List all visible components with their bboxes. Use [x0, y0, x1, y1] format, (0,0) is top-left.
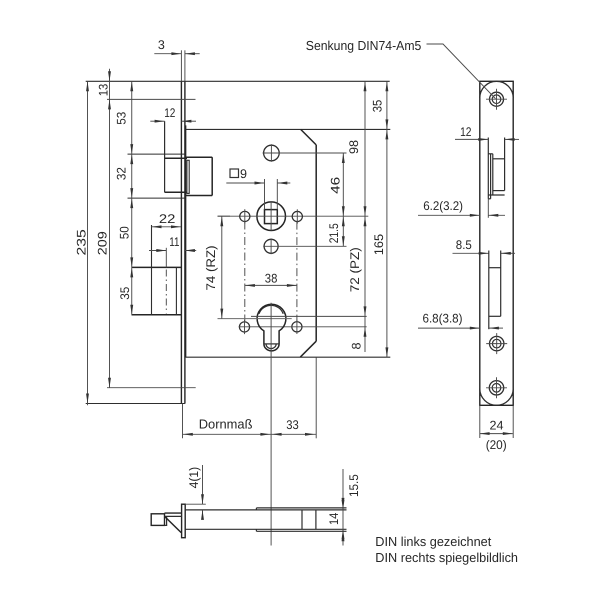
svg-text:Senkung DIN74-Am5: Senkung DIN74-Am5 [306, 38, 422, 53]
svg-text:38: 38 [265, 271, 278, 285]
svg-text:DIN rechts spiegelbildlich: DIN rechts spiegelbildlich [375, 550, 518, 565]
svg-text:4(1): 4(1) [187, 467, 201, 489]
svg-text:9: 9 [240, 167, 247, 181]
svg-text:21.5: 21.5 [327, 223, 341, 243]
dimension 35 / 165 (case height) [371, 81, 389, 357]
left dimension column 13 / 209 / 235 [75, 69, 111, 406]
svg-text:Dornmaß: Dornmaß [199, 417, 253, 432]
main vertical centerline [270, 303, 272, 546]
dash-dot hole pattern lines [244, 222, 246, 322]
latch in faceplate front view [488, 138, 504, 199]
dimension 3 (faceplate thickness) [154, 38, 199, 55]
screw-hole axis lines (side view) [107, 98, 196, 100]
svg-text:6.2(3.2): 6.2(3.2) [423, 199, 463, 213]
svg-text:3: 3 [158, 38, 165, 52]
profile cylinder hole (PZ) [257, 304, 286, 351]
dimension column 53/32/50/35 [115, 81, 134, 314]
svg-text:98: 98 [347, 140, 361, 154]
svg-text:46: 46 [328, 177, 342, 194]
svg-text:DIN links gezeichnet: DIN links gezeichnet [375, 534, 491, 549]
dimension 6.8(3.8) [418, 312, 503, 330]
dimension 11 (deadbolt throw) [149, 235, 196, 252]
svg-text:50: 50 [118, 226, 132, 239]
mounting screw hole upper-left [240, 209, 250, 223]
latch bolt (Falle) [128, 121, 213, 198]
countersunk screw hole top (Senkung) [486, 89, 507, 110]
svg-text:74 (RZ): 74 (RZ) [204, 246, 218, 291]
bottom view: latch with bevel [151, 513, 181, 533]
svg-text:209: 209 [96, 231, 110, 255]
dimension 12 (latch width, front) [455, 125, 519, 141]
svg-text:72 (PZ): 72 (PZ) [348, 247, 362, 292]
countersunk screw hole bottom [486, 377, 507, 398]
dimension 74 (RZ) [204, 216, 230, 318]
mounting screw hole upper-right [292, 209, 302, 223]
bottom view: case body [185, 508, 346, 531]
bottom view: faceplate bar [182, 504, 186, 538]
dimension 4(1) [185, 465, 206, 520]
svg-text:35: 35 [118, 287, 132, 300]
svg-text:13: 13 [97, 84, 111, 97]
svg-text:12: 12 [460, 125, 471, 139]
dimension 46 and 21.5 [327, 153, 345, 246]
dimension Dornmass / 33 [183, 417, 316, 436]
svg-text:235: 235 [75, 229, 89, 255]
svg-text:15.5: 15.5 [347, 474, 361, 497]
dimension 6.2(3.2) [418, 199, 505, 218]
dimension 98 / 72 (PZ) / 8 [347, 81, 366, 352]
lock case outline [186, 125, 391, 438]
svg-text:14: 14 [327, 513, 341, 525]
svg-text:(20): (20) [486, 438, 507, 452]
faceplate front view outline [480, 81, 513, 438]
svg-text:12: 12 [164, 106, 175, 120]
follower axis line [218, 215, 369, 217]
svg-text:165: 165 [372, 234, 386, 255]
label square 9 (follower square) [226, 167, 290, 210]
dimension 24 / (20) [480, 418, 513, 452]
svg-text:8: 8 [350, 342, 364, 349]
mounting screw hole lower-left [239, 320, 249, 334]
svg-text:32: 32 [115, 167, 129, 180]
screw axis line lower [239, 326, 367, 328]
follower (Nuss) with 9mm square [257, 202, 286, 231]
cylinder axis lines [251, 315, 367, 317]
dimension 12 (latch protrusion) [150, 106, 196, 123]
hole below follower [263, 238, 346, 254]
mounting screw hole lower-right [292, 320, 302, 334]
faceplate (Stulp) side view [86, 50, 390, 438]
svg-text:33: 33 [286, 418, 299, 432]
Senkung leader and label [306, 38, 496, 98]
svg-text:6.8(3.8): 6.8(3.8) [423, 312, 463, 326]
svg-text:53: 53 [115, 112, 129, 125]
countersunk screw hole middle [486, 333, 507, 354]
svg-text:24: 24 [490, 418, 504, 432]
svg-text:8.5: 8.5 [456, 238, 472, 252]
svg-text:22: 22 [159, 212, 176, 226]
svg-text:11: 11 [169, 235, 179, 249]
dimension 8.5 (deadbolt cutout width) [453, 238, 516, 255]
hole above follower [263, 144, 347, 162]
dimension 22 (deadbolt width) [152, 212, 182, 228]
dimension 15.5 / 14 [327, 469, 361, 546]
deadbolt (Riegel) [132, 225, 182, 315]
svg-text:35: 35 [371, 100, 385, 113]
deadbolt cutout front view [489, 251, 501, 330]
dimension 38 (hole pattern width) [245, 271, 297, 287]
